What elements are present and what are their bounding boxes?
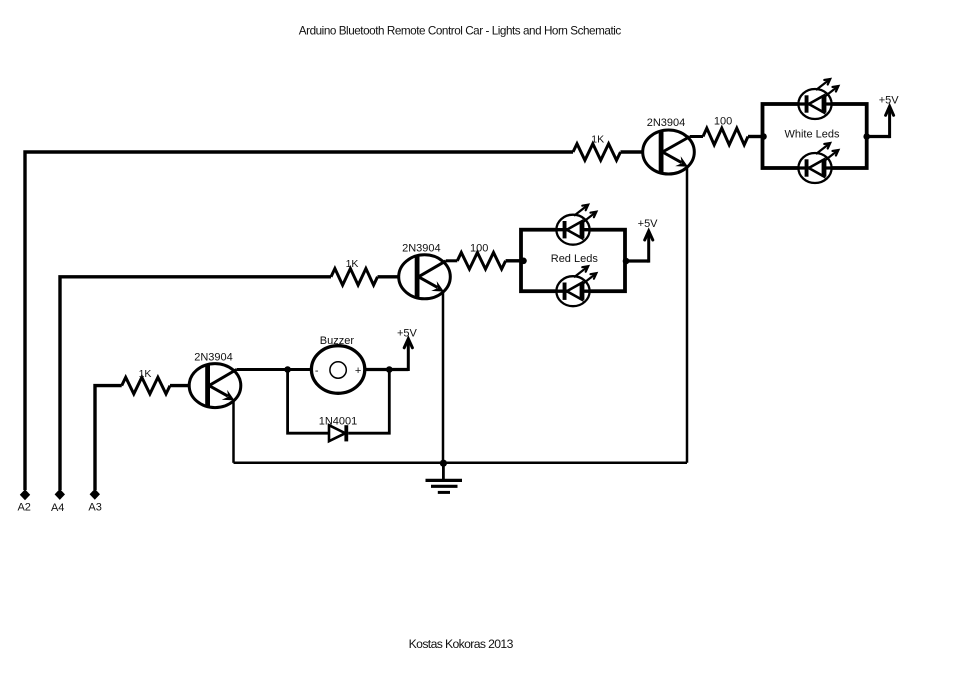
svg-text:2N3904: 2N3904 <box>194 351 233 363</box>
wire flyback branch right <box>348 370 389 434</box>
led D2 white <box>798 153 831 183</box>
wire R1 to Q1 base <box>621 150 667 153</box>
node A2 terminal <box>20 489 30 500</box>
svg-text:Red Leds: Red Leds <box>551 253 599 265</box>
wire Q2 collector to R4 <box>446 259 457 262</box>
junction buzzer left <box>284 366 291 373</box>
buzzer BZ1 <box>311 346 364 394</box>
node A3 terminal <box>90 489 100 500</box>
white leds parallel wiring box <box>763 104 867 168</box>
svg-text:100: 100 <box>470 242 488 254</box>
svg-text:100: 100 <box>714 115 732 127</box>
led D1 white <box>798 89 831 119</box>
wire Q3 collector to buzzer <box>237 368 312 371</box>
svg-text:+: + <box>355 365 361 377</box>
svg-text:-: - <box>315 365 319 377</box>
ground bus wire <box>234 462 688 465</box>
transistor Q3 2N3904 <box>189 364 241 408</box>
ground symbol <box>442 463 445 479</box>
svg-text:1K: 1K <box>591 134 604 146</box>
svg-text:Arduino Bluetooth Remote Contr: Arduino Bluetooth Remote Control Car - L… <box>299 24 622 37</box>
transistor Q1 2N3904 <box>643 130 695 174</box>
junction white box left <box>760 133 767 140</box>
svg-text:2N3904: 2N3904 <box>402 242 441 254</box>
wire buzzer to +5V junction <box>365 368 409 371</box>
wire red box to +5V <box>626 259 649 262</box>
led D3 red <box>556 215 589 245</box>
svg-text:2N3904: 2N3904 <box>647 117 686 129</box>
power +5V arrow (red leds) <box>647 231 650 263</box>
node A4 terminal <box>55 489 65 500</box>
svg-text:White Leds: White Leds <box>784 128 840 140</box>
wire R3 to Q2 base <box>378 275 423 278</box>
svg-text:Kostas Kokoras 2013: Kostas Kokoras 2013 <box>409 637 514 651</box>
svg-text:+5V: +5V <box>638 218 659 230</box>
svg-text:1N4001: 1N4001 <box>319 415 358 427</box>
transistor Q2 2N3904 <box>399 255 451 299</box>
wire A2 to R1 <box>25 152 573 490</box>
resistor R5 1K <box>122 377 170 394</box>
resistor R4 100 <box>457 253 505 270</box>
resistor R3 1K <box>331 269 378 286</box>
led D4 red <box>556 276 589 306</box>
svg-text:1K: 1K <box>139 368 152 380</box>
wire A3 to R5 <box>95 386 122 490</box>
junction white box right <box>863 133 870 140</box>
wire R4 to red led box <box>506 259 521 262</box>
svg-text:Buzzer: Buzzer <box>320 335 355 347</box>
wire Q2 emitter to ground bus <box>442 292 445 463</box>
resistor R2 100 <box>703 128 748 145</box>
wire A4 to R3 <box>60 277 331 490</box>
svg-text:+5V: +5V <box>879 94 900 106</box>
junction red box right <box>623 258 630 265</box>
junction red box left <box>520 258 527 265</box>
power +5V arrow (buzzer) <box>407 339 410 371</box>
red leds parallel wiring box <box>521 230 625 292</box>
svg-text:1K: 1K <box>346 258 359 270</box>
wire Q1 collector to R2 <box>690 135 703 138</box>
resistor R1 1K <box>573 144 621 161</box>
junction buzzer right <box>386 366 393 373</box>
wire R5 to Q3 base <box>170 384 213 387</box>
power +5V arrow (white leds) <box>888 106 891 138</box>
wire Q1 emitter to ground bus <box>686 167 689 463</box>
svg-text:A3: A3 <box>88 502 101 514</box>
wire white box to +5V <box>867 135 890 138</box>
wire flyback branch left <box>288 370 329 434</box>
diode D5 1N4001 <box>329 425 345 441</box>
svg-text:+5V: +5V <box>397 327 418 339</box>
wire R2 to white led box <box>748 135 763 138</box>
svg-text:A4: A4 <box>51 502 64 514</box>
svg-text:A2: A2 <box>17 502 30 514</box>
junction ground tap <box>440 460 447 467</box>
wire Q3 emitter to ground bus <box>232 400 235 463</box>
